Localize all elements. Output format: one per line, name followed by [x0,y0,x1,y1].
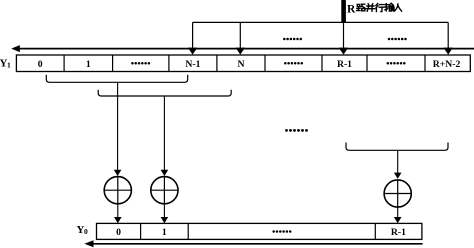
cell ellipsis (Y0 middle cell) [272,230,291,233]
svg-text:1: 1 [86,59,91,70]
wire: drop into cell N [236,22,246,54]
cell label 0 [38,59,43,70]
brace group 1 (cells 0..N-1) [46,75,187,83]
XOR adder 3 [384,180,411,207]
svg-text:R+N-2: R+N-2 [433,59,461,70]
wire: Y1 shift-out line with left arrow [11,45,474,52]
XOR adder 2 [151,177,178,204]
wire: brace2 tap down to XOR2 [161,96,169,176]
brace group 3 [346,143,448,151]
ellipsis dots (top right group) [388,38,407,41]
label Y0 [77,224,89,236]
svg-text:R-1: R-1 [391,227,406,238]
wire: XOR2 output down to Y0 cell 1 [161,204,169,223]
svg-text:N-1: N-1 [185,59,200,70]
cell label N-1 [185,59,200,70]
label: R路并行输入 [347,3,402,15]
wire: top horizontal distribution line [193,21,449,23]
输 [385,4,389,11]
wire: Y0 shift-out line with left arrow [84,240,422,247]
svg-text:1: 1 [162,227,167,238]
svg-text:0: 0 [38,59,43,70]
cell ellipsis (Y1 eighth cell) [387,62,406,65]
cell label 0 (Y0) [116,227,121,238]
wire: XOR3 output down to Y0 cell R-1 [394,207,402,223]
cell ellipsis (Y1 sixth cell) [284,62,303,65]
XOR adder 1 [104,177,131,204]
svg-text:R-1: R-1 [337,59,352,70]
wire: XOR1 output down to Y0 cell 0 [114,204,122,223]
cell ellipsis (Y1 third cell) [131,62,150,65]
svg-text:R: R [347,3,356,15]
middle ellipsis dots [285,129,308,132]
入 [395,4,402,11]
cell label 1 [86,59,91,70]
register Y0 box [97,223,422,239]
并 [366,4,375,12]
wire: drop into cell R-1 (from thick input) [339,22,349,54]
register Y0 cell dividers [141,223,376,239]
ellipsis dots (top left group) [283,38,302,41]
svg-text:N: N [238,59,245,70]
wire: brace1 tap down to XOR1 [114,82,122,176]
register Y1 cell dividers [64,55,425,72]
wire: drop into cell N-1 [188,22,198,54]
cell label N [238,59,245,70]
wire: brace3 tap down to XOR3 [394,150,402,179]
cell label R-1 [337,59,352,70]
svg-text:1: 1 [7,60,11,69]
行 [376,3,384,11]
cell label R+N-2 [433,59,461,70]
svg-text:0: 0 [116,227,121,238]
parallel input thick arrow (R-way input) [341,0,346,23]
brace group 2 [98,90,231,96]
register Y1 box [16,55,470,72]
wire: drop into cell R+N-2 [443,22,453,54]
路 [357,4,361,10]
label Y1 [0,58,11,70]
svg-text:0: 0 [84,227,88,236]
cell label R-1 (Y0) [391,227,406,238]
cell label 1 (Y0) [162,227,167,238]
